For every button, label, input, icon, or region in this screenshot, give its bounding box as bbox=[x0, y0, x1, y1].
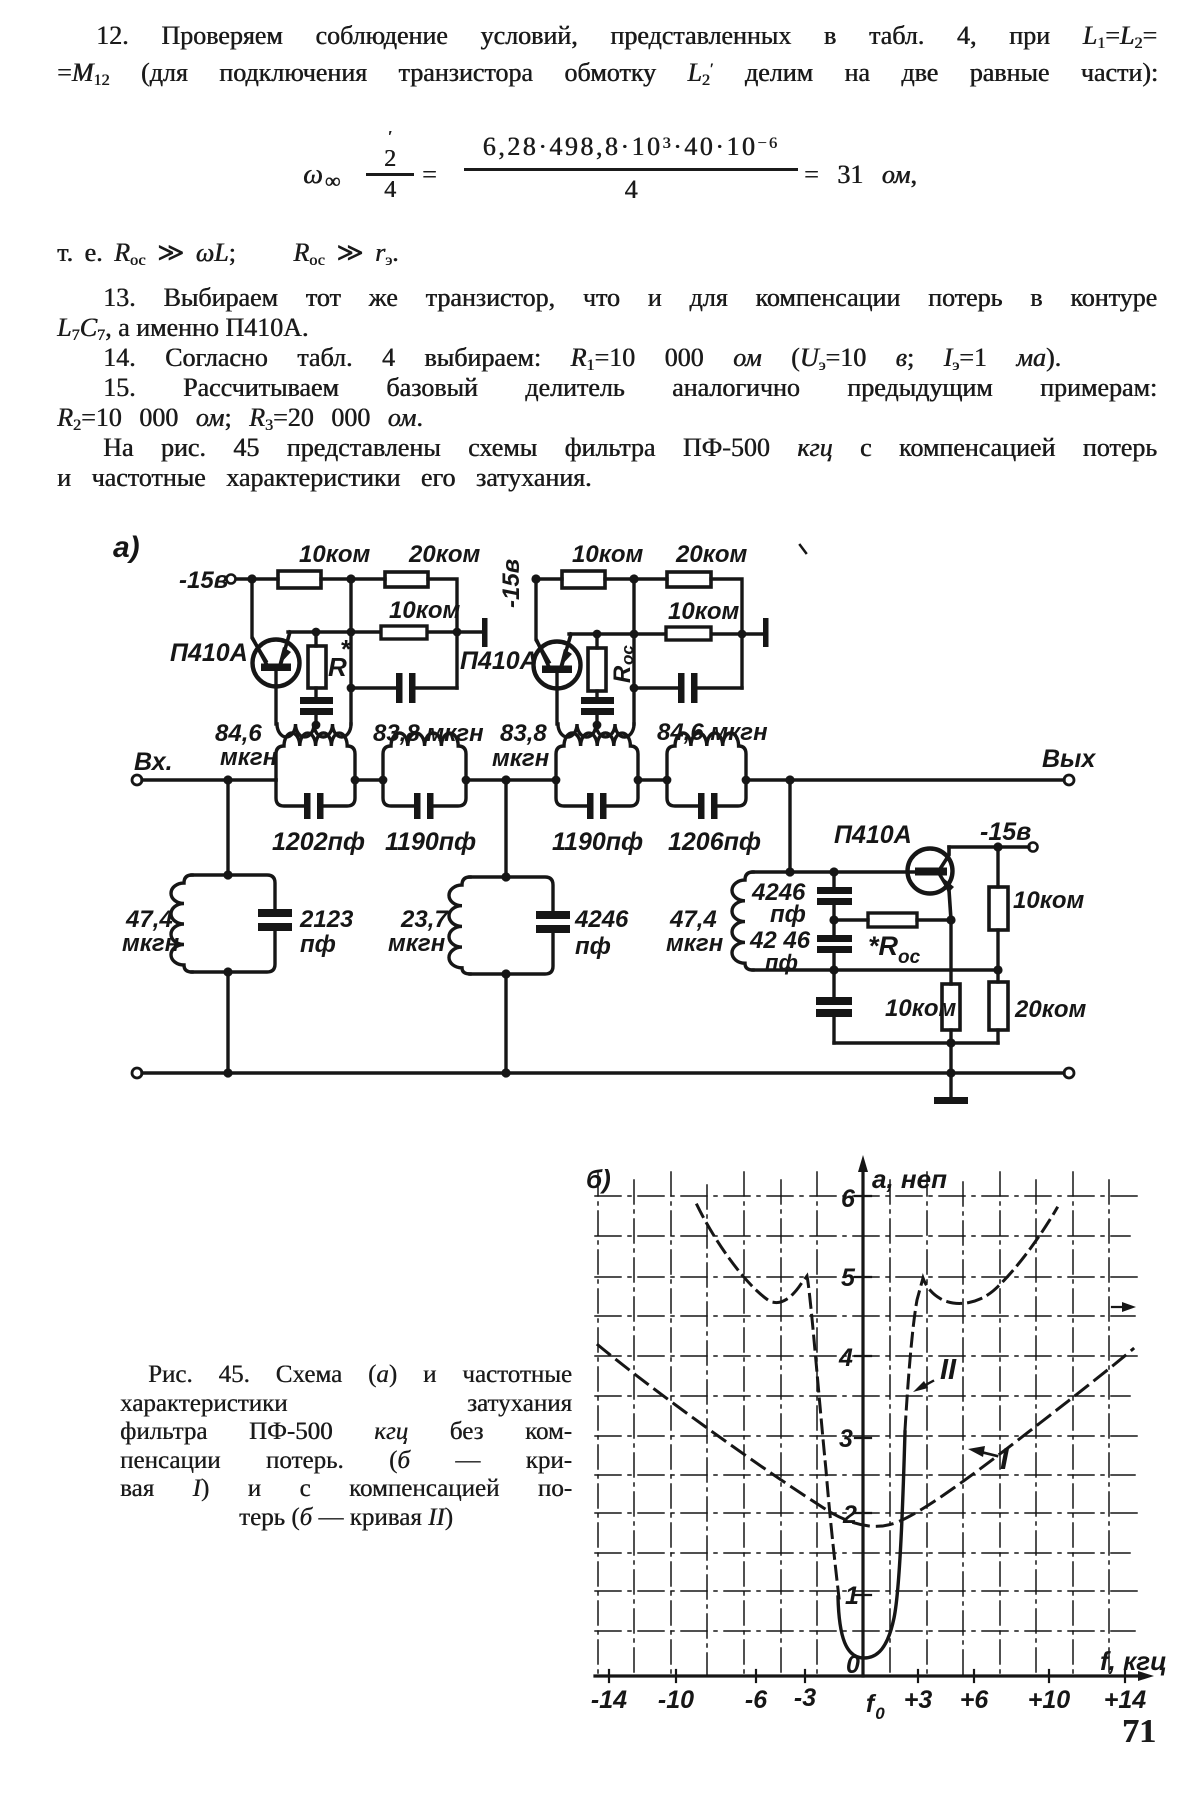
svg-text:47,4: 47,4 bbox=[125, 906, 173, 933]
coupling capacitor stage1 bbox=[351, 673, 457, 703]
coupling winding stage2 bbox=[558, 721, 634, 737]
svg-text:-10: -10 bbox=[658, 1686, 694, 1714]
svg-text:0: 0 bbox=[875, 1704, 885, 1723]
node column crossing at cap row stage1 bbox=[453, 628, 462, 637]
svg-text:Вых: Вых bbox=[1042, 745, 1096, 773]
svg-text:2: 2 bbox=[842, 1501, 857, 1529]
svg-text:1202пф: 1202пф bbox=[272, 828, 365, 856]
wire supply to R1 bbox=[236, 577, 278, 580]
curve II solid bottom bbox=[838, 1432, 905, 1658]
output terminal Vyx bbox=[1042, 745, 1096, 785]
svg-text:3: 3 bbox=[839, 1425, 853, 1453]
node base-column crossing stage1 bbox=[347, 628, 356, 637]
svg-text:1: 1 bbox=[845, 1582, 859, 1610]
svg-text:1206пф: 1206пф bbox=[668, 828, 761, 856]
svg-text:84,6 мкгн: 84,6 мкгн bbox=[657, 719, 768, 746]
node s2 right bbox=[462, 776, 471, 785]
wire bottom bus bbox=[142, 1071, 1064, 1074]
supply terminal -15v output stage bbox=[949, 818, 1038, 852]
resistor *Roc output stage bbox=[834, 913, 951, 968]
svg-text:+6: +6 bbox=[960, 1686, 990, 1714]
resistor 10kom collector bbox=[989, 847, 1085, 970]
ground bbox=[934, 1073, 968, 1104]
svg-text:мкгн: мкгн bbox=[492, 745, 550, 772]
svg-text:ос: ос bbox=[618, 645, 637, 665]
transistor Q3 P410A bbox=[834, 821, 954, 920]
node Roc tap bbox=[829, 915, 838, 924]
label curve II with arrow bbox=[913, 1354, 957, 1392]
svg-text:20ком: 20ком bbox=[675, 541, 748, 568]
node supply stage2 bbox=[531, 574, 540, 583]
node Roc top stage2 bbox=[593, 630, 602, 639]
svg-text:10ком: 10ком bbox=[389, 597, 461, 624]
shunt tank 2 (23.7 uH / 4246 pF) bbox=[449, 877, 570, 974]
curve II left branch bbox=[697, 1205, 839, 1598]
wire center column stage1 bbox=[349, 579, 352, 724]
resistor Roc stage2 bbox=[588, 634, 637, 697]
paragraph 15 line 1 bbox=[103, 373, 1157, 433]
label tank3 L 47.4 bbox=[666, 906, 724, 957]
node collector divider bbox=[993, 842, 1002, 851]
node emitter junction bbox=[946, 915, 955, 924]
node tank3 tap bbox=[785, 775, 794, 784]
wire bottom row output stage bbox=[834, 1041, 998, 1044]
offpage T terminal stage1 bbox=[482, 618, 488, 647]
label tank1 C 2123 bbox=[299, 906, 354, 958]
wire R to R stage2 bbox=[605, 577, 667, 580]
node bus tank2 bbox=[501, 1068, 510, 1077]
wire input run bbox=[142, 778, 276, 781]
coupling winding stage1 bbox=[277, 721, 351, 737]
label tank2 L 23.7 bbox=[388, 906, 449, 957]
label curve I with arrow bbox=[968, 1441, 1010, 1476]
resistor R* stage1 bbox=[308, 632, 352, 697]
capacitor below R* stage1 bbox=[300, 697, 333, 724]
svg-text:-15в: -15в bbox=[980, 818, 1031, 846]
shunt tank 3 inductor (47.4 uH) bbox=[732, 872, 834, 970]
label tank1 L 47.4 bbox=[122, 906, 180, 957]
svg-text:пф: пф bbox=[575, 933, 611, 960]
svg-text:83,8: 83,8 bbox=[500, 720, 547, 747]
resistor 10kom stage2 bbox=[562, 541, 644, 588]
graph grid vertical lines bbox=[598, 1172, 1109, 1676]
wire tank2 drop bbox=[504, 780, 507, 877]
node s3 right bbox=[634, 776, 643, 785]
shunt tank 1 (47.4 uH / 2123 pF) bbox=[171, 875, 292, 972]
capacitor 4246pf lower bbox=[749, 927, 852, 975]
svg-text:23,7: 23,7 bbox=[400, 906, 449, 933]
svg-text:*R: *R bbox=[868, 931, 899, 961]
resistor 20kom stage2 bbox=[667, 541, 748, 587]
node tank1 bottom bbox=[223, 967, 232, 976]
node divider junction stage2 bbox=[629, 574, 638, 583]
wire output run bbox=[746, 778, 1064, 781]
label tank2 C 4246 bbox=[574, 906, 629, 960]
input terminal Vx bbox=[132, 748, 173, 785]
node tank3 top tap bbox=[785, 867, 794, 876]
bottom bus terminal left bbox=[132, 1068, 142, 1078]
wire supply to R stage2 bbox=[536, 577, 562, 580]
svg-text:Вх.: Вх. bbox=[134, 748, 173, 776]
stray scan mark bbox=[800, 545, 806, 553]
svg-text:мкгн: мкгн bbox=[666, 930, 724, 957]
svg-text:10ком: 10ком bbox=[885, 995, 957, 1022]
wire tank1 drop bbox=[226, 780, 229, 875]
svg-text:ос: ос bbox=[898, 947, 921, 968]
node column crossing stage2 right bbox=[738, 630, 747, 639]
node tank2 tap bbox=[501, 775, 510, 784]
wire tank1 to bus bbox=[226, 972, 229, 1073]
svg-text:-3: -3 bbox=[794, 1684, 816, 1712]
svg-text:-14: -14 bbox=[591, 1686, 627, 1714]
node s3 left bbox=[552, 776, 561, 785]
node emitter bottom bbox=[946, 1038, 955, 1047]
wire base row stage1 bbox=[288, 630, 483, 633]
wire s3-s4 bbox=[638, 778, 667, 781]
svg-text:10ком: 10ком bbox=[299, 541, 371, 568]
series LC section 1 (84.6 uH / 1202 pF) bbox=[276, 733, 355, 819]
resistor 20kom bias bbox=[989, 970, 1087, 1043]
svg-text:+3: +3 bbox=[904, 1686, 933, 1714]
svg-text:4: 4 bbox=[838, 1344, 853, 1372]
formula big fraction bbox=[464, 132, 798, 205]
svg-text:f, кгц: f, кгц bbox=[1100, 1646, 1167, 1676]
svg-text:-15в: -15в bbox=[498, 559, 525, 608]
paragraph 12 line 1 bbox=[96, 21, 1157, 81]
node coupling cap left stage1 bbox=[347, 684, 356, 693]
figure caption bbox=[120, 1361, 572, 1533]
paragraph 13 line 2 bbox=[57, 313, 308, 343]
node tank1 tap bbox=[223, 775, 232, 784]
svg-text:мкгн: мкгн bbox=[388, 930, 446, 957]
svg-text:II: II bbox=[940, 1354, 957, 1386]
formula omega bbox=[303, 160, 340, 190]
graph X axis f,kgc bbox=[595, 1646, 1167, 1681]
paragraph 12 line 2 bbox=[57, 58, 1158, 118]
bottom bus terminal right bbox=[1064, 1068, 1074, 1078]
graph grid horizontal lines bbox=[595, 1196, 1140, 1631]
svg-text:84,6: 84,6 bbox=[215, 720, 262, 747]
formula result bbox=[804, 160, 917, 190]
node base-column crossing stage2 bbox=[630, 630, 639, 639]
node bottom row right bbox=[993, 965, 1002, 974]
paragraph final line 1 bbox=[103, 433, 1157, 493]
svg-text:4246: 4246 bbox=[574, 906, 629, 933]
series LC section 2 (83.8 uH / 1190 pF) bbox=[383, 733, 466, 819]
svg-text:5: 5 bbox=[841, 1264, 856, 1292]
node divider junction stage1 bbox=[346, 574, 355, 583]
wire base drop stage2 bbox=[536, 579, 549, 662]
svg-text:20ком: 20ком bbox=[1014, 996, 1087, 1023]
paragraph 14 bbox=[103, 343, 1061, 403]
svg-text:20ком: 20ком bbox=[408, 541, 481, 568]
offpage T terminal stage2 bbox=[763, 618, 769, 647]
svg-text:R: R bbox=[609, 665, 636, 683]
series LC section 3 (83.8 uH / 1190 pF) bbox=[556, 733, 638, 819]
resistor 20kom stage1 bbox=[385, 541, 481, 587]
Y axis ticks bbox=[855, 1196, 871, 1595]
wire tank2 to bus bbox=[504, 974, 507, 1073]
resistor 10kom stage1 bbox=[278, 541, 371, 588]
capacitor below Roc stage2 bbox=[581, 697, 614, 724]
wire tank3 bottom row bbox=[834, 968, 1000, 971]
svg-text:пф: пф bbox=[300, 931, 336, 958]
node tank2 bottom bbox=[501, 969, 510, 978]
node coupling cap left stage2 bbox=[630, 684, 639, 693]
coupling capacitor stage2 bbox=[634, 673, 742, 703]
wire 20kom to right corner bbox=[428, 579, 457, 688]
svg-text:1190пф: 1190пф bbox=[552, 828, 643, 856]
svg-text:а): а) bbox=[113, 531, 140, 564]
formula small fraction 2'/4 bbox=[366, 126, 414, 201]
curve I (no compensation) bbox=[598, 1345, 1133, 1526]
supply terminal -15v stage 1 bbox=[179, 567, 236, 594]
svg-text:П410А: П410А bbox=[170, 639, 248, 667]
svg-text:мкгн: мкгн bbox=[122, 930, 180, 957]
resistor 10kom feedback stage1 bbox=[381, 597, 461, 639]
svg-text:+14: +14 bbox=[1104, 1686, 1147, 1714]
series LC section 4 (84.6 uH / 1206 pF) bbox=[667, 733, 746, 819]
svg-text:a, неп: a, неп bbox=[872, 1164, 947, 1194]
wire to ground bus bbox=[949, 1043, 952, 1073]
stray arrow right edge bbox=[1112, 1302, 1136, 1312]
node s4 right bbox=[742, 776, 751, 785]
line t.e. bbox=[57, 238, 399, 268]
wire base drop stage1 bbox=[252, 579, 266, 661]
paragraph final line 2 bbox=[57, 463, 591, 493]
node supply junction bbox=[247, 574, 256, 583]
paragraph 13 line 1 bbox=[103, 283, 1157, 343]
wire R1 to R2 bbox=[321, 577, 385, 580]
capacitor bottom left output stage bbox=[816, 970, 852, 1043]
node tank3 bottom bbox=[829, 965, 838, 974]
wire center column stage2 bbox=[632, 579, 635, 724]
resistor 10kom emitter bbox=[885, 920, 960, 1043]
svg-text:1190пф: 1190пф bbox=[385, 828, 476, 856]
transistor Q2 P410A bbox=[460, 634, 581, 689]
transistor Q1 P410A bbox=[170, 632, 300, 687]
svg-text:I: I bbox=[1000, 1441, 1010, 1476]
svg-text:83,8 мкгн: 83,8 мкгн bbox=[373, 720, 484, 747]
node tank1 top bbox=[223, 870, 232, 879]
svg-text:10ком: 10ком bbox=[572, 541, 644, 568]
svg-text:-6: -6 bbox=[745, 1686, 768, 1714]
wire s2-s3 bbox=[466, 778, 556, 781]
node s4 left bbox=[663, 776, 672, 785]
node bus ground bbox=[946, 1068, 955, 1077]
svg-text:+10: +10 bbox=[1028, 1686, 1071, 1714]
node bus tank1 bbox=[223, 1068, 232, 1077]
transistor emitter lead stage1 bbox=[274, 671, 277, 724]
X axis ticks bbox=[609, 1670, 1125, 1682]
label L3 83.8 bbox=[492, 720, 550, 772]
paragraph 15 line 2 bbox=[57, 403, 423, 433]
wire base row stage2 bbox=[569, 632, 764, 635]
svg-text:пф: пф bbox=[770, 901, 806, 928]
graph Y axis a,nep bbox=[858, 1155, 947, 1676]
svg-text:10ком: 10ком bbox=[668, 598, 740, 625]
formula equals bbox=[422, 160, 437, 190]
svg-text:П410А: П410А bbox=[834, 821, 912, 849]
transistor emitter lead stage2 bbox=[555, 673, 558, 724]
resistor 10kom feedback stage2 bbox=[666, 598, 740, 640]
page number bbox=[1122, 1717, 1156, 1747]
node s1 right bbox=[351, 776, 360, 785]
svg-text:П410А: П410А bbox=[460, 647, 538, 675]
svg-text:47,4: 47,4 bbox=[669, 906, 717, 933]
node R* top bbox=[312, 628, 321, 637]
label L1 84.6 bbox=[215, 720, 278, 771]
svg-text:-15в: -15в bbox=[179, 567, 228, 594]
X tick labels bbox=[591, 1684, 1146, 1723]
svg-text:мкгн: мкгн bbox=[220, 744, 278, 771]
wire tank3 drop bbox=[788, 780, 791, 872]
node s2 left bbox=[379, 776, 388, 785]
wire 20kom to right corner stage2 bbox=[711, 579, 742, 688]
wire s1-s2 bbox=[355, 778, 383, 781]
curve II right branch bbox=[905, 1208, 1057, 1430]
svg-text:10ком: 10ком bbox=[1013, 887, 1085, 914]
svg-text:пф: пф bbox=[765, 950, 798, 975]
capacitor 4246pf upper bbox=[751, 872, 852, 935]
svg-text:2123: 2123 bbox=[299, 906, 354, 933]
node tank2 top bbox=[501, 872, 510, 881]
node tank3 top right bbox=[829, 867, 838, 876]
svg-text:6: 6 bbox=[841, 1185, 856, 1213]
